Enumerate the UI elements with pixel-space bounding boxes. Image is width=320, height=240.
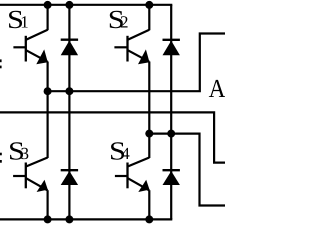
junction dot top rail / S2 collector	[145, 1, 153, 9]
wire: node B line to lower right exit	[149, 134, 225, 206]
wire: S2 collector drop	[148, 5, 150, 30]
transistor S3	[13, 158, 48, 193]
label S4	[109, 137, 130, 166]
wire: bottom DC- rail	[0, 218, 172, 220]
diode D2	[163, 40, 180, 56]
svg-text:A: A	[209, 74, 225, 103]
svg-text:1: 1	[20, 13, 29, 32]
label S3	[8, 137, 29, 166]
transistor S2	[114, 30, 149, 64]
wire: S4 emitter to bottom rail	[148, 190, 150, 219]
diode D4	[163, 170, 180, 185]
transistor S1	[13, 30, 47, 64]
junction dot top rail / S1 collector	[44, 1, 52, 9]
junction dot bottom rail / S4 emitter	[145, 215, 153, 223]
svg-text:3: 3	[21, 144, 30, 163]
junction dot node B / S2 leg	[145, 130, 153, 138]
wire: top DC+ rail	[0, 4, 172, 6]
junction dot bottom rail / S3 emitter	[44, 215, 52, 223]
junction dot top rail / D1	[65, 1, 73, 9]
wire: S1 emitter / node A / S3 collector riser	[46, 62, 48, 159]
wire: S1 collector drop	[46, 5, 48, 30]
wire: mid rail node A out to right edge	[48, 34, 225, 92]
cut-off text fragment lower left edge	[0, 153, 2, 163]
wire: right diode branch	[170, 5, 172, 220]
wire: long crossing line exiting right	[0, 112, 225, 162]
wire: S3 emitter to bottom rail	[46, 190, 48, 219]
cut-off text fragment upper left edge	[0, 59, 2, 68]
wire: S2 emitter / node B / S4 collector riser	[148, 62, 150, 159]
diode D1	[61, 40, 78, 56]
junction dot node B / D2 leg	[167, 130, 175, 138]
junction dot bottom rail / D3 leg	[65, 215, 73, 223]
label S1	[7, 5, 29, 34]
junction dot node A / D1 leg	[65, 87, 73, 95]
svg-text:2: 2	[120, 13, 129, 32]
wire: left diode branch	[68, 5, 70, 220]
transistor S4	[115, 158, 150, 193]
label S2	[108, 5, 129, 34]
junction dot node A / S1 leg	[44, 87, 52, 95]
svg-text:4: 4	[121, 144, 130, 163]
diode D3	[61, 170, 78, 185]
